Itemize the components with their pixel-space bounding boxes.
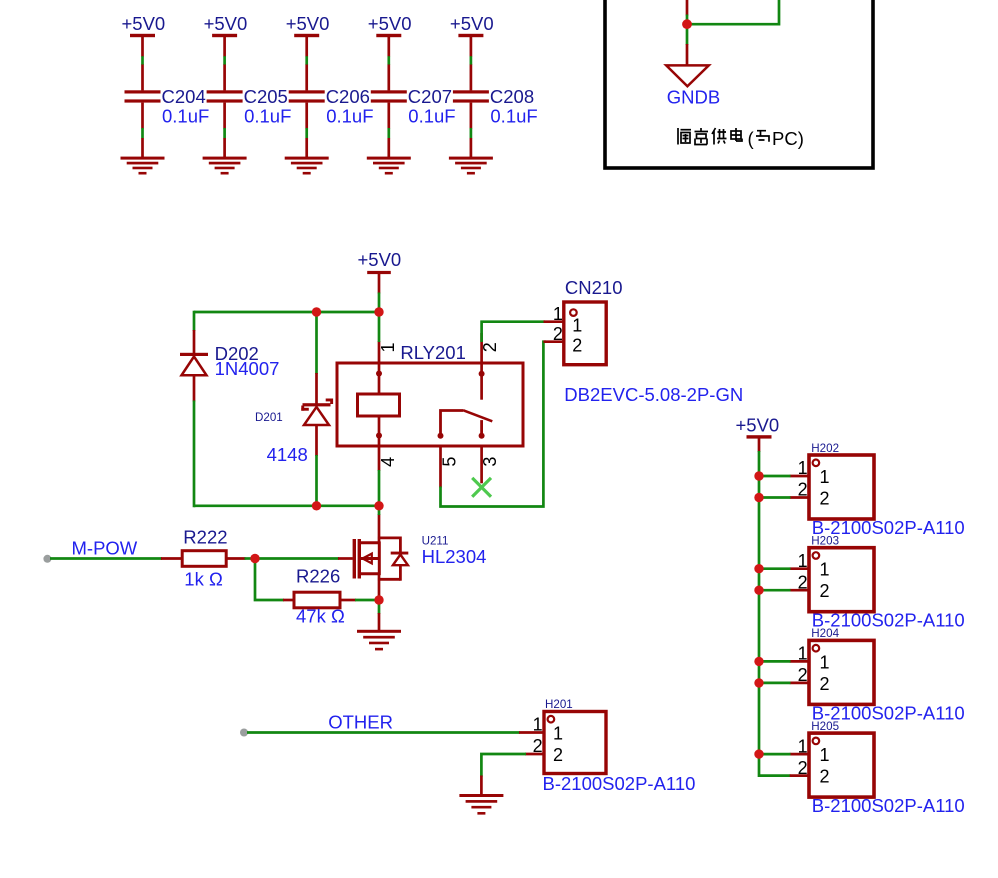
- wire +5V0 down to node: [378, 293, 381, 309]
- wire OTHER to H201: [247, 731, 520, 734]
- svg-text:2: 2: [480, 342, 500, 352]
- connector H204 B-2100S02P-A110: [809, 627, 965, 723]
- diode D201 4148: [255, 373, 333, 465]
- junction node A (relay coil / +5V0): [374, 307, 383, 316]
- svg-text:1: 1: [820, 467, 830, 487]
- ground (below C204): [121, 138, 165, 175]
- wire +5V0 to C207: [387, 56, 390, 65]
- svg-text:C205: C205: [244, 86, 288, 107]
- wire C208 to GND: [470, 128, 473, 138]
- svg-text:+5V0: +5V0: [368, 13, 412, 34]
- svg-text:1: 1: [798, 644, 808, 664]
- CN210 pin 1: [544, 304, 583, 335]
- ground (below U211): [357, 630, 401, 633]
- svg-text:DB2EVC-5.08-2P-GN: DB2EVC-5.08-2P-GN: [564, 384, 743, 405]
- svg-text:2: 2: [798, 480, 808, 500]
- svg-text:RLY201: RLY201: [400, 342, 465, 363]
- isolated-supply annotation box: [605, 0, 873, 168]
- wire C207 to GND: [387, 128, 390, 138]
- svg-text:+5V0: +5V0: [204, 13, 248, 34]
- wire C206 to GND: [305, 128, 308, 138]
- ground (below C208): [449, 138, 493, 175]
- svg-text:2: 2: [820, 674, 830, 694]
- svg-text:B-2100S02P-A110: B-2100S02P-A110: [812, 795, 965, 816]
- svg-text:1: 1: [533, 715, 543, 735]
- diode D202 1N4007: [180, 330, 279, 402]
- relay pin 5: [439, 446, 459, 488]
- svg-text:1: 1: [798, 736, 808, 756]
- H201 pin 2: [525, 736, 563, 765]
- capacitor C207 0.1uF: [371, 65, 456, 129]
- svg-text:C208: C208: [490, 86, 534, 107]
- H201 pin 1: [519, 715, 563, 744]
- svg-text:1: 1: [572, 315, 582, 335]
- relay coil: [358, 364, 400, 445]
- junction (H203 pin1): [754, 564, 763, 573]
- svg-text:1N4007: 1N4007: [215, 358, 280, 379]
- svg-text:2: 2: [798, 665, 808, 685]
- wire +5V0 rail: [759, 451, 791, 776]
- H204 pin 2: [790, 665, 830, 694]
- junction (H204 pin1): [754, 657, 763, 666]
- H203 pin 1: [790, 551, 830, 580]
- wire +5V0 to C204: [141, 56, 144, 65]
- wire rail to H203 pin1: [759, 567, 791, 570]
- svg-text:1: 1: [820, 745, 830, 765]
- svg-text:5: 5: [439, 457, 459, 467]
- wire D201 bottom to rail: [315, 455, 318, 506]
- svg-text:R226: R226: [296, 566, 340, 587]
- no-ERC marker on relay pin 3: [472, 478, 491, 497]
- relay contact (common + NO): [438, 364, 493, 439]
- capacitor C205 0.1uF: [207, 65, 292, 129]
- wire bottom rail: [194, 504, 379, 507]
- H202 pin 2: [790, 480, 830, 509]
- svg-text:C206: C206: [326, 86, 370, 107]
- net M-POW wire end: [43, 555, 51, 563]
- relay pin 3: [480, 446, 500, 483]
- svg-text:0.1uF: 0.1uF: [244, 105, 291, 126]
- wire node D to U211 drain: [378, 506, 381, 515]
- power +5V0 (H202-H205 rail): [736, 415, 780, 453]
- wire GNDB branch right: [690, 0, 779, 24]
- wire rail to H202 pin1: [759, 475, 791, 478]
- junction node F (source): [374, 595, 383, 604]
- junction node C (D201 bottom): [312, 501, 321, 510]
- svg-text:CN210: CN210: [565, 277, 623, 298]
- svg-text:0.1uF: 0.1uF: [162, 105, 209, 126]
- svg-text:0.1uF: 0.1uF: [408, 105, 455, 126]
- power +5V0 (C208): [450, 13, 494, 57]
- svg-text:+5V0: +5V0: [286, 13, 330, 34]
- svg-text:2: 2: [820, 581, 830, 601]
- wire relay pin4 to node D: [378, 470, 381, 506]
- svg-text:1: 1: [820, 560, 830, 580]
- connector H202 B-2100S02P-A110: [809, 442, 965, 538]
- wire junction down to ground symbol: [686, 28, 689, 45]
- wire node F to ground: [378, 602, 381, 614]
- wire +5V0 to C208: [470, 56, 473, 65]
- capacitor C208 0.1uF: [453, 65, 538, 129]
- svg-text:H205: H205: [811, 720, 839, 733]
- wire relay pin1 to node A: [378, 310, 381, 342]
- connector H201 B-2100S02P-A110: [543, 698, 696, 794]
- svg-text:+5V0: +5V0: [358, 249, 402, 270]
- H202 pin 1: [790, 458, 830, 487]
- power +5V0 (C204): [122, 13, 166, 57]
- connector H205 B-2100S02P-A110: [809, 720, 965, 816]
- wire node E down to R226: [255, 559, 284, 601]
- wire relay pin2 to CN210 pin1: [482, 322, 545, 342]
- svg-text:H204: H204: [811, 627, 839, 640]
- resistor R222 1k: [161, 527, 246, 590]
- svg-text:2: 2: [533, 736, 543, 756]
- junction (H204 pin2): [754, 678, 763, 687]
- junction (H202 pin2): [754, 493, 763, 502]
- svg-text:1: 1: [798, 458, 808, 478]
- junction node B (D201 top): [312, 307, 321, 316]
- svg-text:2: 2: [798, 572, 808, 592]
- svg-text:0.1uF: 0.1uF: [490, 105, 537, 126]
- svg-text:1: 1: [378, 342, 398, 352]
- capacitor C206 0.1uF: [289, 65, 374, 129]
- wire R222 to node E: [245, 557, 252, 560]
- svg-text:B-2100S02P-A110: B-2100S02P-A110: [543, 773, 696, 794]
- svg-text:1: 1: [798, 551, 808, 571]
- H203 pin 2: [790, 572, 830, 601]
- svg-text:(: (: [748, 128, 755, 149]
- wire +5V0 to C205: [223, 56, 226, 65]
- svg-text:PC): PC): [772, 128, 804, 149]
- H205 pin 1: [790, 736, 830, 765]
- junction node E (gate): [250, 554, 259, 563]
- wire top rail D202-D201-relay: [194, 311, 379, 314]
- wire relay pin5 to CN210 pin2: [441, 342, 547, 507]
- connector H203 B-2100S02P-A110: [809, 535, 965, 631]
- svg-text:4148: 4148: [267, 444, 308, 465]
- svg-text:1k Ω: 1k Ω: [184, 569, 223, 590]
- wire C204 to GND: [141, 128, 144, 138]
- junction (H202 pin1): [754, 471, 763, 480]
- H204 pin 1: [790, 644, 830, 673]
- capacitor C204 0.1uF: [125, 65, 210, 129]
- svg-text:H201: H201: [545, 698, 573, 711]
- junction (H205 pin1): [754, 749, 763, 758]
- ground (below C206): [285, 138, 329, 175]
- svg-text:1: 1: [553, 723, 563, 743]
- relay pin 1: [378, 341, 398, 363]
- wire D202 bottom to rail: [193, 401, 196, 508]
- svg-text:2: 2: [820, 488, 830, 508]
- svg-text:0.1uF: 0.1uF: [326, 105, 373, 126]
- svg-text:2: 2: [572, 335, 582, 355]
- svg-text:2: 2: [553, 745, 563, 765]
- power +5V0 (C205): [204, 13, 248, 57]
- svg-text:+5V0: +5V0: [736, 415, 780, 436]
- svg-text:1: 1: [820, 652, 830, 672]
- svg-text:D201: D201: [255, 411, 283, 424]
- svg-text:2: 2: [798, 758, 808, 778]
- wire rail to H204 pin2: [759, 682, 791, 685]
- relay pin 2: [480, 333, 500, 363]
- wire from +5VB source (into GNDB node): [686, 0, 689, 16]
- power symbol GNDB (triangle): [666, 65, 720, 107]
- wire rail to H203 pin2: [759, 589, 791, 592]
- junction (H203 pin2): [754, 586, 763, 595]
- node GNDB junction: [682, 19, 692, 29]
- wire rail to H205 pin1: [759, 753, 791, 756]
- svg-text:C204: C204: [162, 86, 206, 107]
- wire C205 to GND: [223, 128, 226, 138]
- wire M-POW to R222: [50, 557, 162, 560]
- svg-text:HL2304: HL2304: [422, 546, 487, 567]
- svg-text:M-POW: M-POW: [72, 538, 138, 559]
- wire +5V0 to C206: [305, 56, 308, 65]
- wire D201 top stub: [315, 312, 318, 374]
- relay pin 4: [378, 446, 398, 471]
- svg-text:R222: R222: [183, 527, 227, 548]
- net OTHER wire end: [240, 729, 248, 737]
- svg-text:47k Ω: 47k Ω: [296, 605, 345, 626]
- ground (below H201): [459, 776, 503, 815]
- wire D202 top stub: [193, 311, 196, 331]
- junction node D (relay pin4 / drain): [374, 501, 383, 510]
- wire node E to U211 gate: [255, 557, 339, 560]
- svg-text:2: 2: [820, 767, 830, 787]
- connector CN210 DB2EVC-5.08-2P-GN: [564, 277, 743, 405]
- ground (below C205): [203, 138, 247, 175]
- power +5V0 (C206): [286, 13, 330, 57]
- ground (below C207): [367, 138, 411, 175]
- relay RLY201 body: [337, 342, 523, 446]
- H205 pin 2: [790, 758, 830, 787]
- svg-text:2: 2: [553, 324, 563, 344]
- svg-text:1: 1: [553, 304, 563, 324]
- svg-text:+5V0: +5V0: [122, 13, 166, 34]
- svg-text:GNDB: GNDB: [667, 86, 720, 107]
- svg-text:OTHER: OTHER: [328, 712, 393, 733]
- wire R226 to node F: [355, 599, 375, 602]
- svg-text:+5V0: +5V0: [450, 13, 494, 34]
- CN210 pin 2: [544, 324, 583, 355]
- svg-text:C207: C207: [408, 86, 452, 107]
- wire rail to H202 pin2: [759, 496, 791, 499]
- power +5V0 (C207): [368, 13, 412, 57]
- transistor U211 HL2304 (N-MOSFET): [353, 514, 487, 596]
- power +5V0 (relay): [358, 249, 402, 294]
- svg-text:4: 4: [378, 457, 398, 467]
- label 隔离供电(与PC): [678, 128, 742, 145]
- wire H201 pin2 to ground: [481, 754, 526, 777]
- wire rail to H204 pin1: [759, 660, 791, 663]
- resistor R226 47k: [283, 566, 356, 627]
- svg-text:H203: H203: [811, 535, 839, 548]
- svg-text:H202: H202: [811, 442, 839, 455]
- svg-text:3: 3: [480, 457, 500, 467]
